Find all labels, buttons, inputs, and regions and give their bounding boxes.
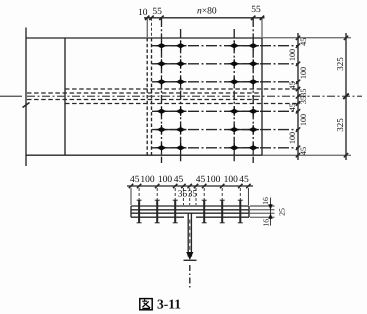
lower dimension line <box>127 185 253 187</box>
svg-text:45: 45 <box>288 103 297 111</box>
right dim tick at plate inner edge upper <box>296 87 300 91</box>
right beam end (hidden) <box>151 38 153 155</box>
section bolt heads 3 <box>173 200 178 223</box>
section bolt shank 5 <box>221 200 223 223</box>
svg-text:10: 10 <box>138 8 148 18</box>
bolt B14 (row 4, col 2) <box>176 107 186 116</box>
caption 图 3-11 <box>140 297 181 312</box>
thickness dim extension lines <box>250 206 275 217</box>
bolt gauge solid segment row 3 group 1 <box>156 81 187 83</box>
web centerline below <box>189 265 191 288</box>
section bolt heads 4 <box>202 200 207 223</box>
section bolt shank 6 <box>239 200 241 223</box>
lower dim extension line: section centreline <box>189 188 191 205</box>
lower dim tick: web plate edge left <box>181 184 185 188</box>
section bolt shank 3 <box>174 200 176 223</box>
thickness labels 16 25 16 <box>261 197 287 227</box>
bolt gauge solid segment row 1 group 1 <box>156 45 187 47</box>
web left line <box>187 213 189 256</box>
section bolt shank 4 <box>203 200 205 223</box>
section bolt heads 1 <box>137 200 142 223</box>
dimension text labels <box>130 5 345 226</box>
bottom edge extension line <box>262 154 351 156</box>
lower dim tick: web plate edge right <box>194 184 198 188</box>
section: bottom plates bottom line <box>131 216 249 218</box>
outer right dim ticks <box>344 36 348 158</box>
bolt gauge solid segment row 4 group 1 <box>156 110 187 112</box>
bolt gauge row 1 <box>152 45 298 47</box>
lower dim labels <box>130 175 249 199</box>
bottom plate inner edge lower (hidden) <box>65 103 300 105</box>
lower dim extension line: section bolt d <box>203 188 205 205</box>
svg-text:35: 35 <box>299 89 308 97</box>
section bolt heads 5 <box>220 200 225 223</box>
svg-text:325: 325 <box>335 118 345 132</box>
bolt B7 (row 2, col 3) <box>229 59 239 68</box>
section right end cap <box>248 206 250 217</box>
svg-text:25: 25 <box>278 208 287 216</box>
section bolt heads 6 <box>238 200 243 223</box>
bolt B23 (row 6, col 3) <box>229 143 239 152</box>
bolt B1 (row 1, col 1) <box>157 41 167 50</box>
bolt gauge row 2 <box>152 63 298 65</box>
bolt B16 (row 4, col 4) <box>248 107 258 116</box>
bolt B18 (row 5, col 2) <box>176 125 186 134</box>
svg-text:35: 35 <box>178 189 188 199</box>
lower dim tick: section bolt a <box>137 184 141 188</box>
left beam end (hidden) <box>146 38 148 155</box>
bolt column line 4 <box>252 18 254 163</box>
bolt gauge solid segment row 3 group 2 <box>229 81 260 83</box>
right dim tick at centreline <box>296 94 300 98</box>
web centre dashed line <box>189 220 191 251</box>
bolt B6 (row 2, col 2) <box>176 59 186 68</box>
bolt gauge solid segment row 5 group 2 <box>229 129 260 131</box>
bolt B15 (row 4, col 3) <box>229 107 239 116</box>
svg-text:100: 100 <box>299 114 308 126</box>
right dim tick at plate top edge <box>296 36 300 40</box>
top dim extension plate right edge <box>261 18 263 37</box>
bolt gauge solid segment row 1 group 2 <box>229 45 260 47</box>
web break bar <box>184 259 197 261</box>
outer right dimension line <box>345 33 347 160</box>
section left end cap <box>130 206 132 217</box>
top dim extension left beam end <box>146 18 148 37</box>
bolt B8 (row 2, col 4) <box>248 59 258 68</box>
right dim tick at bolt row 5 <box>296 127 300 131</box>
bolt gauge solid segment row 2 group 2 <box>229 63 260 65</box>
svg-text:35: 35 <box>188 189 198 199</box>
right dim tick at plate inner edge lower <box>296 101 300 105</box>
right dim tick at bolt row 6 <box>296 146 300 150</box>
svg-text:100: 100 <box>158 175 173 185</box>
centerline axis tick at outer dim <box>343 94 349 100</box>
svg-text:45: 45 <box>130 175 140 185</box>
svg-text:100: 100 <box>224 175 239 185</box>
lower dim extension line: section bolt e <box>221 188 223 205</box>
lower dim tick: section bolt f <box>238 184 242 188</box>
top dim extension right beam end <box>151 18 153 37</box>
svg-text:16: 16 <box>262 219 271 227</box>
bolt B5 (row 2, col 1) <box>157 59 167 68</box>
section bolt shank 2 <box>156 200 158 223</box>
lower dim extension line: section right end <box>247 188 249 205</box>
lower dim extension line: section bolt b <box>156 188 158 205</box>
top dimension line <box>144 17 265 19</box>
svg-text:100: 100 <box>140 175 155 185</box>
lower dim extension line: web plate edge right <box>195 188 197 205</box>
bolt gauge row 6 <box>152 147 298 149</box>
splice plate left edge <box>64 38 66 155</box>
lower dim tick: section bolt d <box>202 184 206 188</box>
beam flange bottom edge <box>26 154 262 156</box>
svg-text:45: 45 <box>196 175 206 185</box>
top dim ticks <box>145 16 264 20</box>
lower dim tick: section left end <box>129 184 133 188</box>
lower dim extension line: web plate edge left <box>182 188 184 205</box>
right dim tick at bolt row 1 <box>296 44 300 48</box>
svg-text:16: 16 <box>261 197 270 205</box>
svg-text:55: 55 <box>251 5 261 15</box>
svg-text:45: 45 <box>174 175 184 185</box>
bolt B4 (row 1, col 4) <box>248 41 258 50</box>
splice plate right edge <box>261 38 263 155</box>
beam flange left break edge <box>25 28 27 167</box>
svg-text:100: 100 <box>288 132 297 144</box>
bolt B3 (row 1, col 3) <box>229 41 239 50</box>
bolt gauge solid segment row 5 group 1 <box>156 129 187 131</box>
bolt gauge solid segment row 4 group 2 <box>229 110 260 112</box>
bolt gauge row 4 <box>152 110 298 112</box>
bolt gauge solid segment row 6 group 1 <box>156 147 187 149</box>
lower dim tick: section right end <box>246 184 250 188</box>
bolt gauge solid segment row 2 group 1 <box>156 63 187 65</box>
thickness dim line <box>270 198 272 226</box>
web right line <box>190 213 192 256</box>
bolt column line 2 <box>180 29 182 163</box>
bolt B22 (row 6, col 2) <box>176 143 186 152</box>
section: cover plate top line <box>131 205 249 207</box>
bolt B13 (row 4, col 1) <box>157 107 167 116</box>
bottom plate inner edge upper (hidden) <box>65 88 300 90</box>
bolt gauge solid segment row 6 group 2 <box>229 147 260 149</box>
break tick on left edge <box>23 103 30 108</box>
svg-text:45: 45 <box>239 175 249 185</box>
web hidden line upper <box>27 92 262 94</box>
bolt column line 3 <box>233 29 235 163</box>
lower dim tick: section bolt b <box>155 184 159 188</box>
svg-text:45: 45 <box>299 147 308 155</box>
right dim tick at bolt row 2 <box>296 62 300 66</box>
inner right dimension line <box>297 33 299 160</box>
svg-text:55: 55 <box>152 7 162 17</box>
svg-text:100: 100 <box>299 67 308 79</box>
section: flange bottom line <box>131 212 249 214</box>
beam flange top edge <box>26 37 262 39</box>
svg-text:100: 100 <box>206 175 221 185</box>
bolt B9 (row 3, col 1) <box>157 77 167 86</box>
bolt B24 (row 6, col 4) <box>248 143 258 152</box>
section: flange top line <box>131 209 249 211</box>
bolt gauge row 5 <box>152 129 298 131</box>
bolt B10 (row 3, col 2) <box>176 77 186 86</box>
right dim tick at plate bottom edge <box>296 153 300 157</box>
web break arrow <box>186 252 193 260</box>
lower dim tick: section centreline <box>188 184 192 188</box>
lower dim extension line: section bolt f <box>239 188 241 205</box>
lower dim tick: section bolt e <box>220 184 224 188</box>
svg-text:n×80: n×80 <box>197 7 217 17</box>
svg-text:45: 45 <box>288 81 297 89</box>
lower dim extension line: section left end <box>130 188 132 205</box>
bolt B12 (row 3, col 4) <box>248 77 258 86</box>
bolt B17 (row 5, col 1) <box>157 125 167 134</box>
web hidden line lower <box>27 99 262 101</box>
bolt gauge row 3 <box>152 81 298 83</box>
lower dim extension line: section bolt a <box>138 188 140 205</box>
bolt B2 (row 1, col 2) <box>176 41 186 50</box>
svg-text:100: 100 <box>288 49 297 61</box>
bolt B19 (row 5, col 3) <box>229 125 239 134</box>
beam centerline axis <box>0 95 362 97</box>
svg-text:3-11: 3-11 <box>157 297 181 312</box>
section bolt shank 1 <box>138 200 140 223</box>
right dim tick at bolt row 3 <box>296 80 300 84</box>
section bolt heads 2 <box>155 200 160 223</box>
svg-text:35: 35 <box>299 96 308 104</box>
thickness dim arrows <box>268 204 272 218</box>
svg-text:45: 45 <box>299 38 308 46</box>
bolt B20 (row 5, col 4) <box>248 125 258 134</box>
lower dim tick: section bolt c <box>173 184 177 188</box>
bolt B21 (row 6, col 1) <box>157 143 167 152</box>
bolt column line 1 <box>161 18 163 163</box>
svg-text:325: 325 <box>335 57 345 71</box>
bolt B11 (row 3, col 3) <box>229 77 239 86</box>
lower dim extension line: section bolt c <box>174 188 176 205</box>
top edge extension line <box>262 37 351 39</box>
right dim tick at bolt row 4 <box>296 109 300 113</box>
right inner dim labels <box>288 38 308 155</box>
